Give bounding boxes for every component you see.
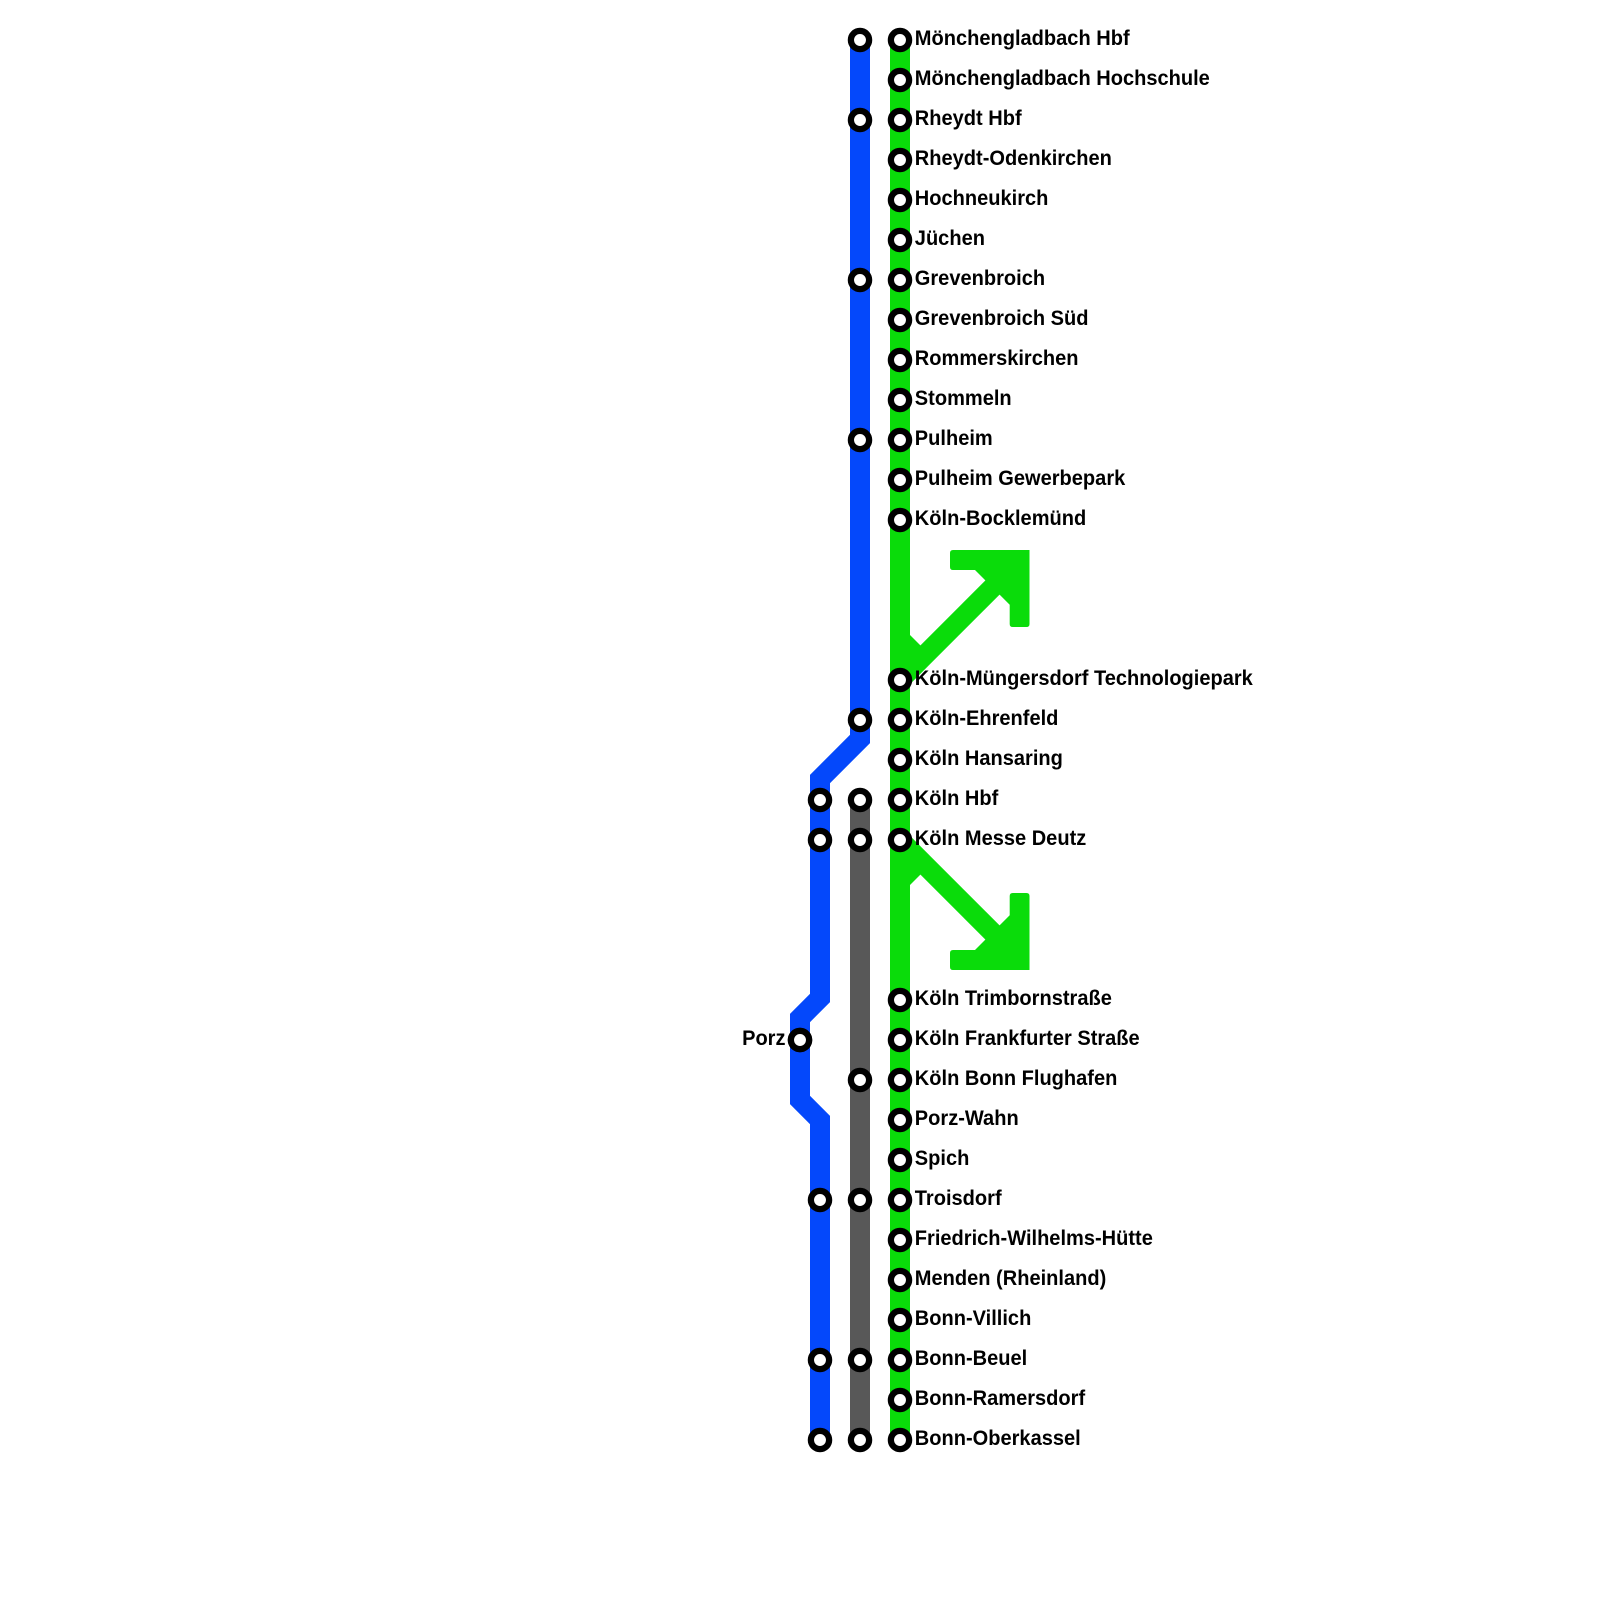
station circle blue line y=1040 [791,1031,809,1049]
svg-text:Köln Hbf: Köln Hbf [915,786,999,810]
station circle green line Rheydt Hbf [891,111,909,129]
green arrow southeast head (bevelled corner with bars) [950,893,1030,970]
svg-text:Köln Messe Deutz: Köln Messe Deutz [915,826,1086,850]
station circle blue line y=40 [851,31,869,49]
svg-text:Mönchengladbach Hochschule: Mönchengladbach Hochschule [915,66,1210,90]
station circle green line Köln Hansaring [891,751,909,769]
station circle green line Rommerskirchen [891,351,909,369]
station circle blue line y=1440 [811,1431,829,1449]
svg-text:Spich: Spich [915,1146,970,1170]
svg-text:Pulheim Gewerbepark: Pulheim Gewerbepark [915,466,1126,490]
svg-text:Köln Trimbornstraße: Köln Trimbornstraße [915,986,1112,1010]
station circle blue line y=280 [851,271,869,289]
svg-text:Rheydt-Odenkirchen: Rheydt-Odenkirchen [915,146,1112,170]
station circle Porz (blue line) [791,1031,809,1049]
svg-text:Rommerskirchen: Rommerskirchen [915,346,1079,370]
svg-text:Troisdorf: Troisdorf [915,1186,1002,1210]
station circle green line Menden (Rheinland) [891,1271,909,1289]
green arrow southeast shaft [893,833,1001,941]
station circle gray line y=1440 [851,1431,869,1449]
svg-text:Bonn-Villich: Bonn-Villich [915,1306,1032,1330]
svg-text:Grevenbroich Süd: Grevenbroich Süd [915,306,1089,330]
station circle green line Bonn-Oberkassel [891,1431,909,1449]
green arrow southeast junction fillet [908,862,922,887]
station circle gray line y=800 [851,791,869,809]
svg-text:Köln Bonn Flughafen: Köln Bonn Flughafen [915,1066,1118,1090]
station circle green line Pulheim [891,431,909,449]
station circle green line Bonn-Beuel [891,1351,909,1369]
svg-text:Friedrich-Wilhelms-Hütte: Friedrich-Wilhelms-Hütte [915,1226,1153,1250]
station circle green line Köln-Bocklemünd [891,511,909,529]
green arrow northeast head (bevelled corner with bars) [950,550,1030,627]
green arrow northeast shaft [893,579,1001,687]
svg-text:Jüchen: Jüchen [915,226,985,250]
svg-text:Mönchengladbach Hbf: Mönchengladbach Hbf [915,26,1130,50]
station circle green line Rheydt-Odenkirchen [891,151,909,169]
station circle green line Grevenbroich Süd [891,311,909,329]
station circle green line Köln-Ehrenfeld [891,711,909,729]
svg-text:Köln-Bocklemünd: Köln-Bocklemünd [915,506,1086,530]
svg-text:Köln-Ehrenfeld: Köln-Ehrenfeld [915,706,1059,730]
svg-text:Hochneukirch: Hochneukirch [915,186,1049,210]
svg-text:Bonn-Oberkassel: Bonn-Oberkassel [915,1426,1081,1450]
station circle green line Mönchengladbach Hochschule [891,71,909,89]
svg-text:Bonn-Ramersdorf: Bonn-Ramersdorf [915,1386,1085,1410]
svg-text:Menden (Rheinland): Menden (Rheinland) [915,1266,1106,1290]
station circle blue line y=720 [851,711,869,729]
station circle blue line y=800 [811,791,829,809]
station circle blue line y=1360 [811,1351,829,1369]
station circle green line Köln-Müngersdorf Technologiepark [891,671,909,689]
station circle blue line y=440 [851,431,869,449]
green arrow northeast junction fillet [908,633,922,658]
station circle blue line y=120 [851,111,869,129]
station circle green line Köln Bonn Flughafen [891,1071,909,1089]
station circle green line Mönchengladbach Hbf [891,31,909,49]
svg-text:Köln Frankfurter Straße: Köln Frankfurter Straße [915,1026,1140,1050]
svg-text:Köln Hansaring: Köln Hansaring [915,746,1063,770]
station circle green line Köln Frankfurter Straße [891,1031,909,1049]
station circle green line Köln Messe Deutz [891,831,909,849]
svg-text:Pulheim: Pulheim [915,426,993,450]
station circle blue line y=1200 [811,1191,829,1209]
station circle gray line y=1200 [851,1191,869,1209]
station circle green line Porz-Wahn [891,1111,909,1129]
station circle gray line y=840 [851,831,869,849]
station circle gray line y=1080 [851,1071,869,1089]
svg-text:Köln-Müngersdorf Technologiepa: Köln-Müngersdorf Technologiepark [915,666,1253,690]
gray line Köln Hbf-Bonn-Oberkassel [850,800,870,1440]
station circle gray line y=1360 [851,1351,869,1369]
station circle green line Jüchen [891,231,909,249]
svg-text:Grevenbroich: Grevenbroich [915,266,1045,290]
station circle green line Friedrich-Wilhelms-Hütte [891,1231,909,1249]
station circle green line Köln Hbf [891,791,909,809]
station circle green line Bonn-Ramersdorf [891,1391,909,1409]
svg-text:Porz: Porz [742,1026,785,1050]
svg-text:Rheydt Hbf: Rheydt Hbf [915,106,1022,130]
station circle green line Spich [891,1151,909,1169]
station circle green line Grevenbroich [891,271,909,289]
station circle green line Stommeln [891,391,909,409]
svg-text:Stommeln: Stommeln [915,386,1012,410]
svg-text:Porz-Wahn: Porz-Wahn [915,1106,1019,1130]
station circle green line Köln Trimbornstraße [891,991,909,1009]
station circle green line Bonn-Villich [891,1311,909,1329]
station circle green line Hochneukirch [891,191,909,209]
station circle green line Pulheim Gewerbepark [891,471,909,489]
station circle green line Troisdorf [891,1191,909,1209]
blue line Mönchengladbach-Bonn via Porz [800,40,860,1440]
station circle blue line y=840 [811,831,829,849]
svg-text:Bonn-Beuel: Bonn-Beuel [915,1346,1027,1370]
green line Mönchengladbach-Bonn [890,40,910,1440]
